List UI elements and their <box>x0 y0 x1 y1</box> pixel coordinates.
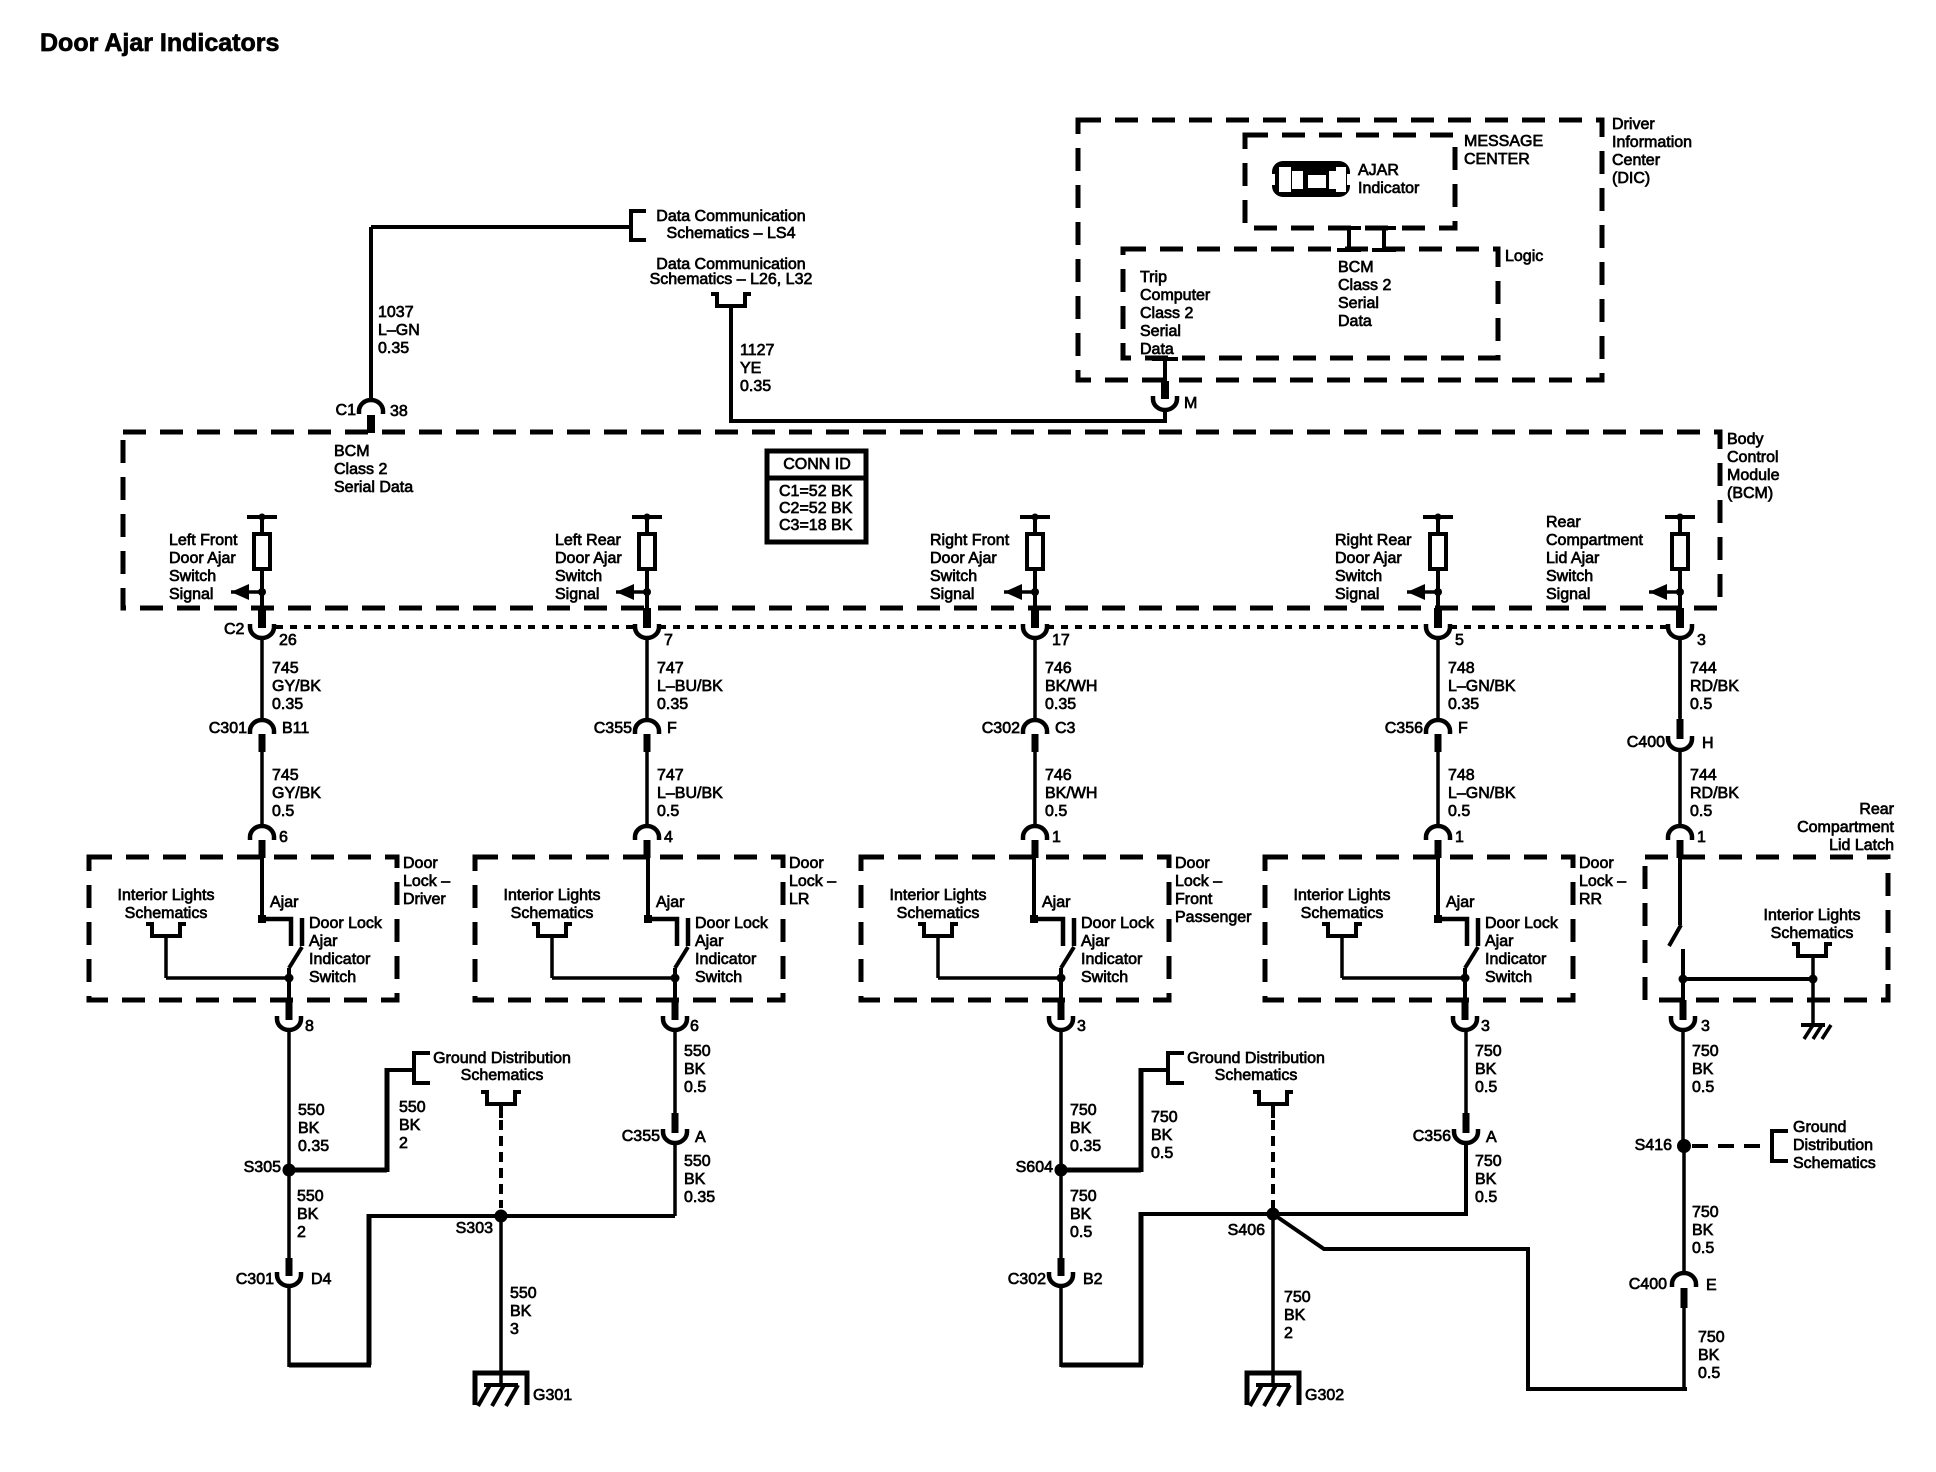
svg-text:BK: BK <box>1070 1206 1092 1223</box>
svg-text:Left Rear: Left Rear <box>555 532 621 549</box>
svg-text:C302: C302 <box>982 720 1020 737</box>
svg-text:Data: Data <box>1140 341 1174 358</box>
svg-text:Signal: Signal <box>930 586 974 603</box>
svg-text:C356: C356 <box>1413 1128 1451 1145</box>
svg-text:0.35: 0.35 <box>684 1189 715 1206</box>
svg-text:Signal: Signal <box>555 586 599 603</box>
svg-text:0.35: 0.35 <box>1045 696 1076 713</box>
svg-text:Door: Door <box>789 855 824 872</box>
svg-text:Right Rear: Right Rear <box>1335 532 1412 549</box>
svg-text:C1: C1 <box>336 402 357 419</box>
svg-text:550: 550 <box>684 1043 711 1060</box>
svg-text:3: 3 <box>510 1321 519 1338</box>
svg-text:550: 550 <box>399 1099 426 1116</box>
svg-text:S416: S416 <box>1635 1137 1672 1154</box>
svg-text:Center: Center <box>1612 152 1661 169</box>
svg-text:BK: BK <box>399 1117 421 1134</box>
svg-text:RR: RR <box>1579 891 1602 908</box>
svg-text:C2: C2 <box>224 621 245 638</box>
svg-text:L–BU/BK: L–BU/BK <box>657 678 723 695</box>
svg-text:Indicator: Indicator <box>1081 951 1143 968</box>
svg-text:Door: Door <box>1579 855 1614 872</box>
svg-text:Schematics – L26, L32: Schematics – L26, L32 <box>650 271 813 288</box>
svg-text:BK: BK <box>1475 1061 1497 1078</box>
svg-text:C301: C301 <box>236 1271 274 1288</box>
svg-text:RD/BK: RD/BK <box>1690 678 1739 695</box>
svg-text:1: 1 <box>1052 829 1061 846</box>
svg-text:C3=18 BK: C3=18 BK <box>779 517 853 534</box>
svg-text:0.35: 0.35 <box>740 378 771 395</box>
svg-text:747: 747 <box>657 660 684 677</box>
svg-text:0.5: 0.5 <box>1698 1365 1720 1382</box>
svg-text:C301: C301 <box>209 720 247 737</box>
svg-text:Ground Distribution: Ground Distribution <box>1187 1050 1325 1067</box>
svg-text:Switch: Switch <box>930 568 977 585</box>
svg-text:1: 1 <box>1697 829 1706 846</box>
svg-text:Door Ajar: Door Ajar <box>1335 550 1402 567</box>
svg-text:C400: C400 <box>1629 1276 1667 1293</box>
svg-text:550: 550 <box>297 1188 324 1205</box>
svg-text:Schematics – LS4: Schematics – LS4 <box>667 225 796 242</box>
svg-text:Schematics: Schematics <box>1771 925 1854 942</box>
svg-text:Lid Ajar: Lid Ajar <box>1546 550 1600 567</box>
svg-text:Door: Door <box>403 855 438 872</box>
svg-text:L–GN: L–GN <box>378 322 420 339</box>
svg-text:Switch: Switch <box>1335 568 1382 585</box>
svg-text:AJAR: AJAR <box>1358 162 1399 179</box>
svg-text:BK: BK <box>1692 1061 1714 1078</box>
svg-text:748: 748 <box>1448 767 1475 784</box>
svg-text:750: 750 <box>1698 1329 1725 1346</box>
svg-text:744: 744 <box>1690 660 1717 677</box>
svg-text:746: 746 <box>1045 660 1072 677</box>
svg-text:747: 747 <box>657 767 684 784</box>
svg-text:C356: C356 <box>1385 720 1423 737</box>
svg-text:8: 8 <box>305 1018 314 1035</box>
svg-text:745: 745 <box>272 660 299 677</box>
svg-text:750: 750 <box>1070 1188 1097 1205</box>
svg-text:17: 17 <box>1052 632 1070 649</box>
svg-text:Ground Distribution: Ground Distribution <box>433 1050 571 1067</box>
svg-text:0.35: 0.35 <box>272 696 303 713</box>
svg-text:BCM: BCM <box>1338 259 1374 276</box>
svg-text:Signal: Signal <box>169 586 213 603</box>
svg-text:GY/BK: GY/BK <box>272 678 321 695</box>
svg-text:Ajar: Ajar <box>695 933 724 950</box>
svg-text:4: 4 <box>664 829 673 846</box>
svg-text:Signal: Signal <box>1335 586 1379 603</box>
svg-text:YE: YE <box>740 360 761 377</box>
svg-text:750: 750 <box>1475 1043 1502 1060</box>
svg-text:A: A <box>695 1129 706 1146</box>
svg-text:Lock –: Lock – <box>1579 873 1626 890</box>
svg-text:745: 745 <box>272 767 299 784</box>
svg-text:BK: BK <box>684 1171 706 1188</box>
svg-text:Switch: Switch <box>1081 969 1128 986</box>
svg-text:Serial Data: Serial Data <box>334 479 413 496</box>
svg-text:3: 3 <box>1481 1018 1490 1035</box>
svg-text:Class 2: Class 2 <box>1338 277 1391 294</box>
svg-text:E: E <box>1706 1277 1717 1294</box>
svg-text:BK: BK <box>1151 1127 1173 1144</box>
svg-text:D4: D4 <box>311 1271 332 1288</box>
svg-text:L–GN/BK: L–GN/BK <box>1448 785 1516 802</box>
svg-text:H: H <box>1702 735 1714 752</box>
svg-text:Serial: Serial <box>1338 295 1379 312</box>
svg-text:750: 750 <box>1475 1153 1502 1170</box>
svg-text:0.5: 0.5 <box>272 803 294 820</box>
svg-text:Door Ajar: Door Ajar <box>930 550 997 567</box>
svg-text:0.5: 0.5 <box>1690 803 1712 820</box>
svg-text:0.35: 0.35 <box>378 340 409 357</box>
svg-text:(BCM): (BCM) <box>1727 485 1773 502</box>
svg-text:Schematics: Schematics <box>897 905 980 922</box>
svg-text:BK: BK <box>298 1120 320 1137</box>
svg-text:0.5: 0.5 <box>1151 1145 1173 1162</box>
svg-text:Lock –: Lock – <box>789 873 836 890</box>
svg-text:Lid Latch: Lid Latch <box>1829 837 1894 854</box>
svg-text:BK/WH: BK/WH <box>1045 678 1097 695</box>
svg-text:Door: Door <box>1175 855 1210 872</box>
svg-text:F: F <box>667 720 677 737</box>
svg-text:Interior Lights: Interior Lights <box>118 887 215 904</box>
svg-text:Data: Data <box>1338 313 1372 330</box>
svg-text:748: 748 <box>1448 660 1475 677</box>
svg-text:Data Communication: Data Communication <box>656 208 805 225</box>
svg-text:G302: G302 <box>1305 1387 1344 1404</box>
svg-text:0.5: 0.5 <box>1045 803 1067 820</box>
svg-text:Indicator: Indicator <box>309 951 371 968</box>
svg-text:C2=52 BK: C2=52 BK <box>779 500 853 517</box>
svg-text:MESSAGE: MESSAGE <box>1464 133 1543 150</box>
svg-text:Body: Body <box>1727 431 1763 448</box>
svg-text:Ground: Ground <box>1793 1119 1846 1136</box>
svg-text:BK/WH: BK/WH <box>1045 785 1097 802</box>
svg-text:BK: BK <box>510 1303 532 1320</box>
svg-text:744: 744 <box>1690 767 1717 784</box>
svg-text:0.5: 0.5 <box>1692 1240 1714 1257</box>
svg-text:750: 750 <box>1692 1204 1719 1221</box>
svg-text:26: 26 <box>279 632 297 649</box>
svg-text:38: 38 <box>390 403 408 420</box>
svg-text:2: 2 <box>399 1135 408 1152</box>
svg-text:BCM: BCM <box>334 443 370 460</box>
svg-text:Indicator: Indicator <box>1358 180 1420 197</box>
svg-text:Door Lock: Door Lock <box>1081 915 1155 932</box>
svg-text:Interior Lights: Interior Lights <box>890 887 987 904</box>
svg-text:G301: G301 <box>533 1387 572 1404</box>
svg-text:BK: BK <box>1070 1120 1092 1137</box>
svg-text:GY/BK: GY/BK <box>272 785 321 802</box>
svg-text:S604: S604 <box>1016 1159 1053 1176</box>
svg-text:RD/BK: RD/BK <box>1690 785 1739 802</box>
svg-text:Schematics: Schematics <box>1301 905 1384 922</box>
svg-text:Interior Lights: Interior Lights <box>1294 887 1391 904</box>
svg-text:Compartment: Compartment <box>1546 532 1643 549</box>
svg-text:Class 2: Class 2 <box>1140 305 1193 322</box>
svg-text:M: M <box>1184 395 1197 412</box>
svg-text:Ajar: Ajar <box>270 894 299 911</box>
svg-text:B2: B2 <box>1083 1271 1103 1288</box>
svg-text:Distribution: Distribution <box>1793 1137 1873 1154</box>
svg-text:BK: BK <box>1698 1347 1720 1364</box>
svg-text:Switch: Switch <box>169 568 216 585</box>
svg-text:S406: S406 <box>1228 1222 1265 1239</box>
svg-text:F: F <box>1458 720 1468 737</box>
svg-text:C355: C355 <box>622 1128 660 1145</box>
svg-text:Rear: Rear <box>1546 514 1581 531</box>
svg-text:750: 750 <box>1151 1109 1178 1126</box>
svg-text:Class 2: Class 2 <box>334 461 387 478</box>
svg-text:Driver: Driver <box>403 891 446 908</box>
svg-text:2: 2 <box>297 1224 306 1241</box>
svg-text:0.35: 0.35 <box>657 696 688 713</box>
svg-text:Schematics: Schematics <box>125 905 208 922</box>
svg-text:550: 550 <box>510 1285 537 1302</box>
svg-text:S303: S303 <box>456 1220 493 1237</box>
svg-text:Door Ajar Indicators: Door Ajar Indicators <box>40 29 279 57</box>
svg-text:Switch: Switch <box>555 568 602 585</box>
svg-text:BK: BK <box>297 1206 319 1223</box>
svg-text:Schematics: Schematics <box>1793 1155 1876 1172</box>
svg-text:Driver: Driver <box>1612 116 1655 133</box>
svg-text:S305: S305 <box>244 1159 281 1176</box>
svg-text:L–BU/BK: L–BU/BK <box>657 785 723 802</box>
svg-text:0.5: 0.5 <box>1448 803 1470 820</box>
svg-text:C400: C400 <box>1627 734 1665 751</box>
svg-text:750: 750 <box>1284 1289 1311 1306</box>
svg-text:Front: Front <box>1175 891 1213 908</box>
svg-text:Door Ajar: Door Ajar <box>555 550 622 567</box>
svg-text:Ajar: Ajar <box>309 933 338 950</box>
svg-text:Indicator: Indicator <box>1485 951 1547 968</box>
svg-text:Schematics: Schematics <box>511 905 594 922</box>
svg-text:Switch: Switch <box>309 969 356 986</box>
svg-text:Computer: Computer <box>1140 287 1211 304</box>
svg-text:BK: BK <box>1692 1222 1714 1239</box>
svg-text:CENTER: CENTER <box>1464 151 1530 168</box>
svg-text:Schematics: Schematics <box>461 1067 544 1084</box>
svg-text:Passenger: Passenger <box>1175 909 1252 926</box>
svg-text:Ajar: Ajar <box>1446 894 1475 911</box>
svg-text:746: 746 <box>1045 767 1072 784</box>
svg-text:0.35: 0.35 <box>1448 696 1479 713</box>
svg-text:Compartment: Compartment <box>1797 819 1894 836</box>
svg-text:1127: 1127 <box>740 342 775 359</box>
svg-text:5: 5 <box>1455 632 1464 649</box>
svg-text:550: 550 <box>684 1153 711 1170</box>
svg-text:0.5: 0.5 <box>1070 1224 1092 1241</box>
svg-text:Ajar: Ajar <box>656 894 685 911</box>
svg-text:Indicator: Indicator <box>695 951 757 968</box>
svg-text:6: 6 <box>279 829 288 846</box>
svg-text:LR: LR <box>789 891 809 908</box>
svg-text:C1=52 BK: C1=52 BK <box>779 483 853 500</box>
svg-text:L–GN/BK: L–GN/BK <box>1448 678 1516 695</box>
svg-text:Serial: Serial <box>1140 323 1181 340</box>
svg-text:Interior Lights: Interior Lights <box>1764 907 1861 924</box>
svg-text:Trip: Trip <box>1140 269 1167 286</box>
svg-text:6: 6 <box>690 1018 699 1035</box>
svg-text:Door Lock: Door Lock <box>1485 915 1559 932</box>
svg-text:550: 550 <box>298 1102 325 1119</box>
svg-text:CONN ID: CONN ID <box>783 456 851 473</box>
svg-text:Information: Information <box>1612 134 1692 151</box>
svg-text:C355: C355 <box>594 720 632 737</box>
svg-text:Ajar: Ajar <box>1485 933 1514 950</box>
svg-text:Module: Module <box>1727 467 1780 484</box>
svg-text:Door Ajar: Door Ajar <box>169 550 236 567</box>
svg-text:BK: BK <box>684 1061 706 1078</box>
svg-text:Switch: Switch <box>1485 969 1532 986</box>
svg-text:7: 7 <box>664 632 673 649</box>
svg-text:Switch: Switch <box>1546 568 1593 585</box>
svg-text:Lock –: Lock – <box>1175 873 1222 890</box>
svg-text:Control: Control <box>1727 449 1779 466</box>
svg-text:BK: BK <box>1475 1171 1497 1188</box>
svg-text:Ajar: Ajar <box>1042 894 1071 911</box>
svg-text:Schematics: Schematics <box>1215 1067 1298 1084</box>
svg-text:C3: C3 <box>1055 720 1076 737</box>
svg-text:0.35: 0.35 <box>1070 1138 1101 1155</box>
svg-text:0.5: 0.5 <box>1475 1079 1497 1096</box>
svg-text:Logic: Logic <box>1505 248 1543 265</box>
svg-text:B11: B11 <box>282 720 309 737</box>
svg-text:A: A <box>1486 1129 1497 1146</box>
svg-text:0.5: 0.5 <box>1692 1079 1714 1096</box>
svg-text:1037: 1037 <box>378 304 414 321</box>
svg-text:Door Lock: Door Lock <box>309 915 383 932</box>
svg-text:(DIC): (DIC) <box>1612 170 1650 187</box>
svg-text:0.5: 0.5 <box>1690 696 1712 713</box>
svg-text:BK: BK <box>1284 1307 1306 1324</box>
svg-text:0.5: 0.5 <box>1475 1189 1497 1206</box>
svg-text:750: 750 <box>1692 1043 1719 1060</box>
svg-text:Signal: Signal <box>1546 586 1590 603</box>
svg-text:1: 1 <box>1455 829 1464 846</box>
svg-text:Right Front: Right Front <box>930 532 1010 549</box>
svg-text:Ajar: Ajar <box>1081 933 1110 950</box>
svg-text:0.5: 0.5 <box>657 803 679 820</box>
svg-text:Interior Lights: Interior Lights <box>504 887 601 904</box>
svg-text:Door Lock: Door Lock <box>695 915 769 932</box>
svg-text:Lock –: Lock – <box>403 873 450 890</box>
svg-text:Switch: Switch <box>695 969 742 986</box>
svg-text:Left Front: Left Front <box>169 532 238 549</box>
svg-text:3: 3 <box>1701 1018 1710 1035</box>
svg-text:C302: C302 <box>1008 1271 1046 1288</box>
svg-text:Rear: Rear <box>1859 801 1894 818</box>
svg-text:2: 2 <box>1284 1325 1293 1342</box>
svg-text:750: 750 <box>1070 1102 1097 1119</box>
svg-text:0.5: 0.5 <box>684 1079 706 1096</box>
svg-text:3: 3 <box>1697 632 1706 649</box>
svg-text:3: 3 <box>1077 1018 1086 1035</box>
svg-text:0.35: 0.35 <box>298 1138 329 1155</box>
